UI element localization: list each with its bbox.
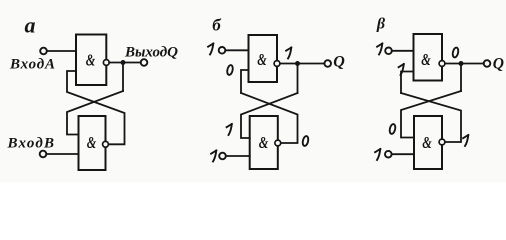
wire input S to G5 [392,50,413,52]
svg-text:Q: Q [333,54,345,71]
NAND gate G4 (middle bottom) [250,116,278,169]
svg-text:Q: Q [493,56,504,73]
wire cross diagonal Q to G2 input [67,91,123,135]
wire input S to G3 [226,49,249,51]
wire cross diagonal Q to G4 input [241,93,298,138]
svg-text:ВыходQ: ВыходQ [124,45,178,61]
label 0 at feedback G6 input [389,124,396,135]
wire feedback G2 output to G1 input [67,71,125,144]
wire cross diagonal Q to G6 input [401,91,461,138]
svg-text:а: а [25,13,36,38]
wire G1 output to terminal [109,62,141,64]
NAND gate G5 (right top) [414,34,443,81]
wire feedback bracket into G5 [401,72,414,94]
svg-text:β: β [376,16,386,33]
label 1 at input S (right) [377,44,382,55]
terminal input S (right) [385,48,392,55]
terminal VhodA [40,48,47,55]
terminal input S (middle) [219,47,226,54]
label 1 at output node (middle) [286,48,291,59]
junction node Q (middle) [295,61,300,66]
terminal Q (middle) [324,60,331,67]
svg-text:&: & [421,51,431,69]
NAND gate G3 (middle top) [249,35,278,82]
terminal VyhodQ [141,59,148,66]
inversion bubble G3 [274,61,280,67]
label 1 at G6 output [463,135,468,146]
wire input R to G4 [226,155,250,157]
inversion bubble G2 [103,141,109,147]
terminal input R (middle) [219,153,226,160]
junction node Q (right) [459,61,464,66]
svg-text:&: & [86,52,96,70]
terminal input R (right) [385,151,392,158]
svg-text:&: & [422,134,432,152]
svg-text:&: & [259,134,269,152]
svg-text:&: & [87,134,97,152]
label 1 at feedback G4 input [227,124,232,135]
wire VhodA to G1 [47,50,76,52]
label 1 at feedback G5 input [399,64,404,75]
wire feedback G4 output to G3 input [241,93,298,143]
wire VhodB to G2 [47,153,79,155]
terminal VhodB [40,151,47,158]
wire feedback bracket into G3 [241,70,249,93]
label 1 at input R (middle) [211,151,216,162]
wire G5 output to terminal Q [445,63,484,65]
NAND gate G1 (left top) [76,35,106,86]
svg-text:ВходВ: ВходВ [7,135,55,151]
inversion bubble G4 [275,140,281,146]
inversion bubble G5 [439,61,445,67]
wire G3 output to terminal Q [280,63,325,65]
wire feedback G6 output to G5 input [401,93,461,142]
label 0 at G4 output [302,136,309,147]
NAND gate G6 (right bottom) [414,116,442,169]
inversion bubble G6 [439,139,445,145]
NAND gate G2 (left bottom) [79,116,106,170]
svg-text:&: & [257,51,267,69]
wire junction down (right) [460,66,462,91]
label 0 at output node (right) [452,47,459,58]
label 0 at feedback G3 input [226,65,233,76]
wire junction down (middle) [297,66,299,93]
junction node Q (left) [121,60,126,65]
svg-text:ВходА: ВходА [9,57,55,73]
label 1 at input R (right) [375,149,380,160]
inversion bubble G1 [103,60,109,66]
wire input R to G6 [392,153,414,155]
label 1 at input S (middle) [208,44,213,55]
terminal Q (right) [484,60,491,67]
wire junction down (left) [122,65,124,91]
